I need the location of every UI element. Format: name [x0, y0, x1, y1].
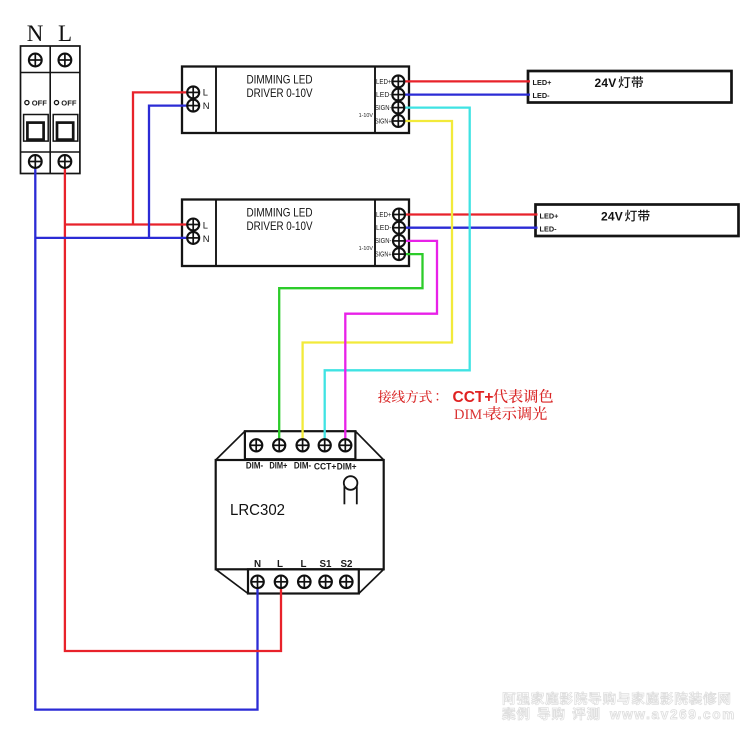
svg-text:DIM+: DIM+ [337, 462, 357, 472]
svg-text:DIMMING LED: DIMMING LED [247, 207, 313, 220]
svg-text:SIGN-: SIGN- [375, 238, 392, 245]
svg-text:LED+: LED+ [533, 78, 552, 87]
svg-text:OFF: OFF [61, 98, 77, 107]
wire: red branch to driver U1 L [133, 92, 193, 224]
svg-text:CCT+: CCT+ [314, 462, 336, 472]
svg-text:www.av269.com: www.av269.com [609, 707, 736, 722]
svg-text:DRIVER 0-10V: DRIVER 0-10V [247, 87, 313, 100]
svg-text:S1: S1 [320, 559, 333, 570]
dimming LED driver U2 box [182, 200, 409, 267]
svg-text:1-10V: 1-10V [359, 246, 374, 252]
svg-text:SIGN+: SIGN+ [375, 118, 392, 125]
svg-text:L: L [301, 559, 307, 570]
24V LED strip 1 box [528, 71, 732, 103]
LRC302 top terminal labels [246, 461, 357, 472]
svg-text:DIM+: DIM+ [269, 461, 287, 471]
svg-text:LED-: LED- [533, 91, 551, 100]
svg-text:LRC302: LRC302 [230, 502, 285, 519]
svg-text:LED-: LED- [376, 92, 392, 99]
wire: blue branch to driver U2 N [35, 237, 193, 239]
svg-text:N: N [27, 21, 44, 46]
dimming LED driver U1 box [182, 67, 409, 134]
svg-text:LED+: LED+ [540, 211, 559, 220]
svg-text:LED+: LED+ [376, 212, 392, 219]
svg-text:N: N [203, 100, 210, 111]
svg-text:DIM-: DIM- [246, 461, 263, 471]
24V LED strip 2 box [536, 205, 739, 237]
wire: U1 SIGN+ -> LRC302 DIM- (yellow) [303, 121, 452, 445]
controller LRC302 body [216, 431, 384, 593]
driver U1 output terminals [392, 75, 404, 87]
red annotation line2 DIM+表示调光 [454, 406, 547, 423]
watermark line1 [503, 692, 730, 705]
svg-text:LED-: LED- [376, 225, 392, 232]
wire: neutral (blue) breaker N -> LRC302 N [35, 162, 257, 710]
svg-text:DRIVER 0-10V: DRIVER 0-10V [247, 220, 313, 233]
LRC302 bottom terminals [251, 576, 264, 589]
svg-text:L: L [203, 87, 208, 98]
svg-text:DIM-: DIM- [294, 461, 311, 471]
svg-text:1-10V: 1-10V [359, 113, 374, 119]
wire: U2 LED- -> strip2 (blue) [399, 227, 538, 229]
svg-text:N: N [254, 559, 261, 570]
wire: U2 SIGN- -> LRC302 DIM+ (magenta) [345, 241, 437, 445]
red annotation line1 接线方式：CCT+代表调色 [378, 389, 553, 406]
svg-text:24V: 24V [601, 210, 623, 224]
svg-text:DIMMING LED: DIMMING LED [247, 74, 313, 87]
svg-text:LED+: LED+ [376, 79, 392, 86]
svg-text:LED-: LED- [540, 224, 558, 233]
svg-text:SIGN-: SIGN- [375, 105, 392, 112]
LRC302 pairing button icon [344, 476, 358, 504]
driver U1 terminals L N [187, 86, 199, 98]
svg-text:DIM+: DIM+ [454, 407, 490, 423]
svg-text:L: L [58, 21, 72, 46]
svg-text:S2: S2 [341, 559, 354, 570]
wire: red branch to driver U2 L [65, 223, 193, 225]
svg-text:L: L [277, 559, 283, 570]
breaker terminals [29, 54, 42, 67]
driver U2 output terminals [393, 209, 405, 221]
svg-text:24V: 24V [595, 76, 617, 90]
svg-text:N: N [203, 233, 210, 244]
wire: U2 SIGN+ -> LRC302 DIM+2 (green) [279, 254, 422, 445]
LRC302 bottom terminal labels [254, 559, 353, 570]
wire: U1 SIGN- -> LRC302 CCT+ (cyan) [325, 108, 470, 445]
svg-text:SIGN+: SIGN+ [375, 251, 392, 258]
svg-text:OFF: OFF [32, 98, 48, 107]
wire: U1 LED+ -> strip1 (red) [398, 80, 530, 82]
svg-text:CCT+: CCT+ [453, 389, 494, 406]
wire: blue branch to driver U1 N [149, 106, 193, 238]
watermark line2 [502, 707, 599, 720]
driver U2 terminals L N [187, 219, 199, 231]
circuit breaker QF (2-pole N/L) [21, 46, 80, 174]
wire: U2 LED+ -> strip2 (red) [399, 213, 538, 215]
LRC302 top terminals [250, 439, 262, 451]
wire: U1 LED- -> strip1 (blue) [398, 93, 530, 95]
wire: live (red) breaker L -> LRC302 L [65, 162, 281, 652]
svg-text:L: L [203, 220, 208, 231]
